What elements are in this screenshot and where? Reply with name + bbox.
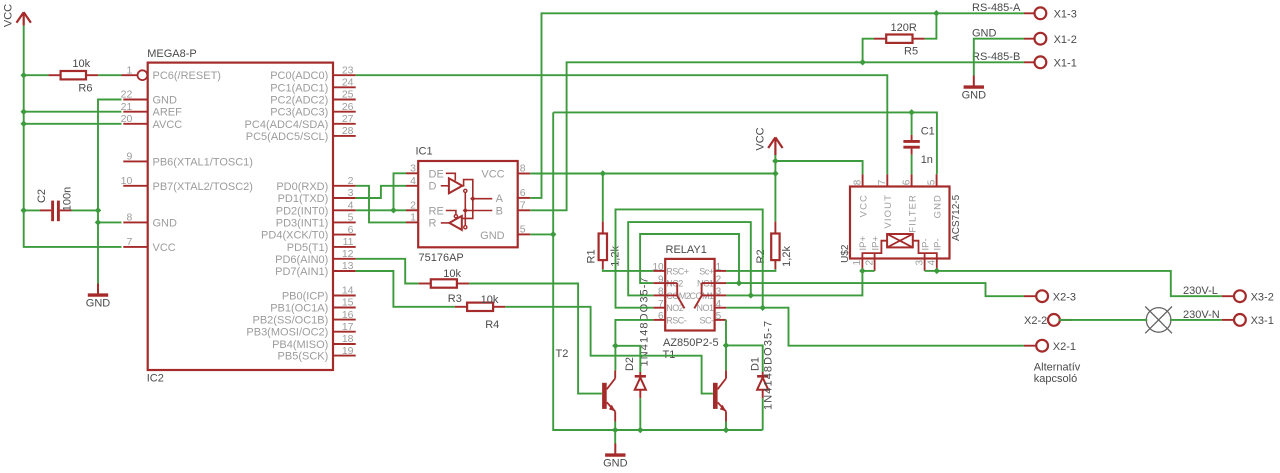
svg-text:7: 7	[126, 236, 132, 248]
ACS712 IP+ internal leads (pins 1,2)	[862, 241, 887, 271]
junction VCC/R2	[772, 170, 779, 177]
svg-text:10: 10	[652, 262, 664, 273]
IC U1 75176AP body (IC1)	[418, 161, 518, 247]
svg-text:PD2(INT0): PD2(INT0)	[276, 205, 329, 217]
connector pad X2-2	[1048, 314, 1060, 326]
IC2 pin 17 stub	[333, 331, 356, 333]
IC1 DE enable line	[446, 173, 456, 180]
junction ACS IP-	[934, 268, 941, 275]
wire net GND: D1 anode to rail corner	[762, 398, 764, 430]
svg-text:4: 4	[927, 260, 938, 266]
junction GND/C2	[95, 207, 102, 214]
svg-text:6: 6	[658, 311, 664, 322]
wire net GND: C2 right	[72, 209, 99, 211]
svg-text:IC1: IC1	[416, 146, 433, 158]
svg-text:D1: D1	[750, 357, 762, 371]
svg-text:9: 9	[658, 274, 664, 285]
svg-text:VIOUT: VIOUT	[883, 194, 894, 229]
wire net RS-485-A: IC1 A to X1-3	[530, 13, 1024, 198]
svg-text:4: 4	[410, 175, 416, 187]
RELAY1 contact pole 1	[702, 282, 715, 284]
wire net VCC: IC1 pin 8 to R2 top	[530, 173, 775, 175]
IC2 pin 8 stub	[123, 221, 147, 223]
svg-text:VCC: VCC	[481, 168, 504, 180]
IC2 pin 12 stub	[333, 258, 356, 260]
svg-text:PD6(AIN0): PD6(AIN0)	[275, 254, 328, 266]
svg-text:24: 24	[342, 77, 354, 89]
svg-text:IP-: IP-	[920, 238, 931, 250]
wire net INT0: branch to IC1 DE	[394, 173, 407, 210]
transistor T1 NPN	[713, 383, 718, 409]
ACS712 pin 8 stub	[862, 174, 864, 186]
svg-text:PB5(SCK): PB5(SCK)	[278, 351, 329, 363]
svg-text:20: 20	[121, 113, 133, 125]
IC2 pin 19 stub	[333, 355, 356, 357]
svg-text:19: 19	[342, 345, 354, 357]
capacitor C2 100n	[40, 209, 51, 211]
RELAY1 pin 5 stub	[715, 319, 727, 321]
capacitor C1 1n	[911, 135, 913, 140]
svg-text:Sc+: Sc+	[699, 266, 714, 276]
ACS712 IP- internal leads (pins 3,4)	[913, 241, 937, 271]
wire net SC-: relay pin 5 to T1 collector	[725, 320, 727, 346]
junction NO loop/NO1	[759, 304, 766, 311]
wire net RSC-: to T2 collector pin	[614, 346, 616, 371]
wire net VCC: to C2 left	[24, 209, 40, 211]
svg-text:PB3(MOSI/OC2): PB3(MOSI/OC2)	[246, 327, 328, 339]
svg-text:IP+: IP+	[858, 236, 869, 251]
wire net SC-: branch to D1 cathode	[726, 345, 763, 372]
svg-text:GND: GND	[480, 230, 505, 242]
wire net GND: to IC2 pin 8	[98, 221, 122, 223]
svg-text:D2: D2	[624, 357, 636, 371]
svg-text:5: 5	[716, 311, 722, 322]
wire net GND: T2 emitter	[614, 422, 616, 431]
IC2 pin 26 stub	[333, 111, 356, 113]
connector pad X1-1	[1035, 56, 1047, 68]
junction COM loop/COM1	[748, 292, 755, 299]
svg-text:1N4148DO35-7: 1N4148DO35-7	[763, 320, 775, 410]
wire net TXD: IC2 pin 3 to IC1 D	[356, 186, 406, 198]
power symbol VCC (left)	[23, 12, 25, 25]
svg-text:X2-2: X2-2	[1024, 315, 1047, 327]
svg-text:IP+: IP+	[870, 236, 881, 251]
svg-text:2: 2	[716, 274, 722, 285]
wire net COM: loop pin 8 to pin 3	[628, 222, 751, 295]
svg-text:28: 28	[342, 125, 354, 137]
svg-text:Alternatív: Alternatív	[1034, 361, 1081, 373]
svg-text:PD0(RXD): PD0(RXD)	[276, 181, 328, 193]
svg-text:PC4(ADC4/SDA): PC4(ADC4/SDA)	[245, 119, 329, 131]
svg-text:10: 10	[121, 175, 133, 187]
wire net NO: relay pin 4 to X2-1	[726, 308, 1024, 346]
wire net NC: relay pin 2 to X2-3	[726, 283, 1024, 296]
connector pad X3-1	[1234, 314, 1246, 326]
wire net VCC: to ACS712 pin 8	[775, 161, 862, 174]
svg-text:PB7(XTAL2/TOSC2): PB7(XTAL2/TOSC2)	[153, 181, 253, 193]
junction GND/C1	[908, 109, 915, 116]
RELAY1 pin 8 stub	[653, 294, 665, 296]
wire net FILTER: C1 to ACS712 pin 6	[911, 155, 913, 174]
svg-text:R2: R2	[755, 249, 767, 263]
connector pad X1-2	[1035, 33, 1047, 45]
IC1 driver output to A/B crossover	[462, 180, 473, 219]
junction RS-485-B/R5	[859, 59, 866, 66]
svg-text:100n: 100n	[62, 187, 74, 211]
diode D2 1N4148	[639, 372, 641, 376]
svg-text:PC2(ADC2): PC2(ADC2)	[270, 95, 328, 107]
svg-text:R6: R6	[78, 82, 92, 94]
svg-text:X2-3: X2-3	[1053, 291, 1076, 303]
svg-text:MEGA8-P: MEGA8-P	[147, 48, 197, 60]
junction NC loop/NC1	[736, 280, 743, 287]
svg-text:GND: GND	[153, 217, 178, 229]
resistor R1 1,2k	[602, 221, 604, 233]
wire net NO: loop pin 7 to pin 4	[616, 209, 763, 307]
IC1 driver buffer triangle	[449, 178, 462, 193]
IC1 pin 3 stub	[406, 172, 418, 174]
diode D1 1N4148	[762, 372, 764, 376]
svg-text:14: 14	[342, 285, 354, 297]
svg-text:RSC+: RSC+	[666, 266, 689, 276]
IC1 RE enable line	[446, 211, 456, 215]
ground symbol GND (bottom, emitters)	[614, 444, 616, 456]
svg-text:C1: C1	[921, 125, 935, 137]
resistor R3 10k	[419, 283, 431, 285]
svg-text:2: 2	[864, 260, 875, 266]
ACS712 internal sensor crossed box	[887, 234, 913, 247]
IC1 pin 1 stub	[406, 221, 418, 223]
svg-text:7: 7	[520, 200, 526, 212]
svg-text:22: 22	[121, 89, 133, 101]
IC1 D input line	[441, 185, 449, 187]
svg-text:PD7(AIN1): PD7(AIN1)	[275, 266, 328, 278]
IC2 pin 22 stub	[123, 99, 147, 101]
RELAY1 pin 6 stub	[653, 319, 665, 321]
svg-text:VCC: VCC	[153, 242, 176, 254]
svg-text:GND: GND	[962, 90, 987, 102]
svg-text:3: 3	[410, 163, 416, 175]
svg-text:9: 9	[126, 151, 132, 163]
wire net GND: IC1 pin 5	[530, 233, 553, 235]
connector pin X3-1 stub	[1222, 319, 1235, 321]
junction GND rail/D2	[637, 427, 644, 434]
svg-text:IC2: IC2	[147, 373, 164, 385]
junction RSC-/T2/D2	[612, 343, 619, 350]
svg-text:8: 8	[126, 212, 132, 224]
IC1 pin 7 stub	[518, 209, 531, 211]
ACS712 pin 7 stub	[886, 174, 888, 186]
svg-text:PC6(/RESET): PC6(/RESET)	[153, 70, 221, 82]
svg-text:VCC: VCC	[755, 127, 767, 150]
svg-text:RSC-: RSC-	[666, 315, 687, 325]
svg-text:4: 4	[716, 299, 722, 310]
junction VCC/AVCC	[20, 121, 27, 128]
svg-text:7: 7	[658, 299, 664, 310]
svg-text:X1-1: X1-1	[1054, 58, 1077, 70]
svg-text:B: B	[496, 206, 503, 218]
svg-text:RELAY1: RELAY1	[666, 244, 707, 256]
svg-text:5: 5	[926, 179, 937, 185]
svg-text:16: 16	[342, 309, 354, 321]
svg-text:VCC: VCC	[3, 4, 15, 27]
IC2 pin 2 stub	[333, 185, 356, 187]
wire net T2 base: R3 to T2	[469, 284, 602, 394]
svg-text:NO2: NO2	[666, 303, 684, 313]
wire net VIOUT: IC2 pin 23 to ACS712 pin 7	[356, 75, 888, 174]
svg-text:PC1(ADC1): PC1(ADC1)	[270, 82, 328, 94]
IC2 pin 13 stub	[333, 270, 356, 272]
svg-text:4: 4	[348, 200, 354, 212]
wire net 230V-N: X2-2 to lamp	[1059, 319, 1147, 321]
lamp (230V indicator)	[1146, 308, 1171, 333]
resistor R2 1,2k	[774, 221, 776, 233]
svg-text:8: 8	[658, 287, 664, 298]
wire net N$RESET: R6 to IC2 pin 1	[98, 74, 121, 76]
IC2 pin 18 stub	[333, 343, 356, 345]
wire net RSC-: relay pin 6 to T2 collector	[615, 320, 653, 346]
svg-text:AZ850P2-5: AZ850P2-5	[663, 337, 719, 349]
transistor T2 NPN	[602, 383, 607, 409]
svg-text:17: 17	[342, 321, 354, 333]
junction SC-/T1/D1	[723, 342, 730, 349]
svg-text:1: 1	[852, 260, 863, 266]
svg-text:13: 13	[342, 260, 354, 272]
svg-text:X3-2: X3-2	[1251, 291, 1274, 303]
svg-text:1: 1	[716, 262, 722, 273]
resistor R5 120R	[874, 38, 886, 40]
IC2 pin 10 stub	[123, 185, 147, 187]
IC2 pin 14 stub	[333, 295, 356, 297]
IC2 pin 6 stub	[333, 234, 356, 236]
wire net VCC: arrow stem down to R2	[774, 155, 776, 221]
wire net GND: X1-2 to ground symbol	[974, 39, 1024, 76]
svg-text:5: 5	[348, 212, 354, 224]
svg-text:R4: R4	[485, 319, 499, 331]
wire net VCC: to R6	[24, 74, 49, 76]
connector pin X2-1 stub	[1024, 345, 1037, 347]
junction VCC/AREF	[20, 108, 27, 115]
wire net SC-: to T1 collector pin	[725, 345, 727, 370]
IC2 pin 23 stub	[333, 74, 356, 76]
wire net SC+: relay pin 1 to R2 bottom	[726, 269, 775, 271]
connector pin X1-1 stub	[1024, 61, 1035, 63]
svg-text:7: 7	[877, 179, 888, 185]
svg-text:X2-1: X2-1	[1053, 341, 1076, 353]
svg-text:ACS712-5: ACS712-5	[951, 194, 962, 241]
wire net GND: T1 emitter	[725, 422, 727, 431]
IC2 pin 24 stub	[333, 86, 356, 88]
relay RELAY1 body	[665, 259, 714, 331]
junction ACS IP+	[859, 268, 866, 275]
connector pad X2-1	[1036, 340, 1048, 352]
svg-text:PD4(XCK/T0): PD4(XCK/T0)	[261, 230, 328, 242]
IC2 pin 7 stub	[123, 246, 147, 248]
IC2 pin 16 stub	[333, 319, 356, 321]
svg-text:6: 6	[901, 179, 912, 185]
RELAY1 pin 1 stub	[715, 270, 727, 272]
wire net T1 base: R4 to T1	[505, 307, 713, 394]
wire net GND: IC2 pin 22 down to ground	[98, 100, 122, 284]
svg-text:2: 2	[348, 175, 354, 187]
wire net PD7: IC2 pin 13 to R4	[356, 271, 455, 307]
svg-text:15: 15	[342, 297, 354, 309]
IC2 pin 28 stub	[333, 135, 356, 137]
resistor R6 10k	[48, 74, 60, 76]
IC1 receiver buffer triangle	[449, 216, 462, 230]
svg-text:PB0(ICP): PB0(ICP)	[282, 291, 328, 303]
junction GND rail/T1 emitter	[723, 427, 730, 434]
IC2 pin 11 stub	[333, 246, 356, 248]
wire net RS-485-B: R5 to B line	[863, 39, 874, 63]
svg-text:1: 1	[410, 212, 416, 224]
svg-text:A: A	[496, 193, 504, 205]
svg-text:120R: 120R	[891, 22, 917, 34]
svg-text:6: 6	[520, 187, 526, 199]
wire net VCC: to AVCC	[24, 123, 122, 125]
svg-text:U$2: U$2	[840, 244, 851, 263]
svg-text:DE: DE	[429, 168, 444, 180]
svg-text:3: 3	[914, 260, 925, 266]
wire net GND: stub to ground symbol	[614, 430, 616, 444]
wire net GND: vertical and emitter rail	[553, 112, 763, 430]
IC1 R output line	[441, 222, 450, 224]
IC2 pin 5 stub	[333, 221, 356, 223]
IC2 pin 20 stub	[123, 123, 147, 125]
svg-text:PC3(ADC3): PC3(ADC3)	[270, 107, 328, 119]
connector pad X3-2	[1234, 290, 1246, 302]
svg-text:10k: 10k	[72, 58, 90, 70]
svg-text:GND: GND	[153, 95, 178, 107]
RELAY1 contact pole 2	[665, 282, 677, 284]
svg-text:NO1: NO1	[696, 303, 714, 313]
wire net RS-485-B: IC1 B to X1-1	[530, 62, 1024, 210]
svg-text:T2: T2	[556, 348, 569, 360]
connector pin X3-2 stub	[1222, 295, 1235, 297]
svg-text:PB6(XTAL1/TOSC1): PB6(XTAL1/TOSC1)	[153, 156, 253, 168]
ACS712 pin 6 stub	[911, 174, 913, 186]
connector pin X2-3 stub	[1024, 295, 1037, 297]
svg-text:6: 6	[348, 224, 354, 236]
svg-text:SC-: SC-	[700, 315, 715, 325]
svg-text:kapcsoló: kapcsoló	[1034, 373, 1077, 385]
wire net PD6: IC2 pin 12 to R3	[356, 259, 419, 284]
svg-text:23: 23	[342, 64, 354, 76]
IC U$2 ACS712-5 body	[850, 187, 950, 259]
junction VCC/R6	[20, 72, 27, 79]
svg-text:75176AP: 75176AP	[419, 252, 464, 264]
junction DE/RE	[390, 207, 397, 214]
IC2 pin 21 stub	[123, 111, 147, 113]
IC1 driver inverted output bubble and B line	[464, 189, 467, 192]
wire net VCC: to AREF	[24, 111, 122, 113]
junction GND rail/T2 emitter	[612, 427, 619, 434]
svg-text:18: 18	[342, 333, 354, 345]
svg-text:C2: C2	[36, 189, 48, 203]
IC1 pin 4 stub	[406, 185, 418, 187]
svg-text:PD1(TXD): PD1(TXD)	[278, 193, 329, 205]
svg-text:GND: GND	[603, 458, 628, 470]
svg-text:R1: R1	[586, 249, 598, 263]
svg-text:RE: RE	[429, 205, 444, 217]
wire net VCC: left rail down to IC2 pin 7	[24, 26, 122, 247]
svg-text:3: 3	[348, 187, 354, 199]
svg-text:IP-: IP-	[933, 238, 944, 250]
ground symbol GND (left, C2/IC2)	[97, 284, 99, 296]
junction GND/IC2 pin 8	[95, 219, 102, 226]
svg-text:8: 8	[852, 179, 863, 185]
junction RS-485-A/R5	[933, 10, 940, 17]
svg-text:8: 8	[520, 163, 526, 175]
ACS712 pin 5 stub	[936, 174, 938, 186]
wire net COM: ACS712 pins 1-2 tie	[862, 270, 874, 272]
connector pad X1-3	[1035, 7, 1047, 19]
svg-text:27: 27	[342, 113, 354, 125]
wire net RS-485-A: branch to R5	[925, 13, 937, 38]
svg-text:GND: GND	[86, 298, 111, 310]
IC U2 MEGA8-P body (IC2)	[148, 63, 333, 370]
connector pin X1-3 stub	[1024, 12, 1035, 14]
wire net 230V-L: ACS712 pins 3-4 tie	[925, 270, 937, 272]
IC1 pin 5 stub	[518, 233, 531, 235]
IC1 pin 6 stub	[518, 197, 531, 199]
IC2 pin 4 stub	[333, 209, 356, 211]
RELAY1 pin 9 stub	[653, 282, 665, 284]
junction GND/IC1 pin 5	[550, 231, 557, 238]
RELAY1 pin 10 stub	[653, 270, 665, 272]
IC2 pin 3 stub	[333, 197, 356, 199]
IC2 pin 15 stub	[333, 307, 356, 309]
IC2 pin 27 stub	[333, 123, 356, 125]
svg-text:R3: R3	[448, 293, 462, 305]
svg-text:AREF: AREF	[153, 107, 183, 119]
svg-text:21: 21	[121, 101, 133, 113]
svg-text:AVCC: AVCC	[153, 119, 183, 131]
wire net INT0: IC2 pin 4 to IC1 RE	[356, 209, 406, 211]
RELAY1 pin 2 stub	[715, 282, 727, 284]
svg-text:X1-2: X1-2	[1054, 34, 1077, 46]
connector pin X1-2 stub	[1024, 38, 1035, 40]
svg-text:PB4(MISO): PB4(MISO)	[272, 339, 328, 351]
wire net COM: relay pin 3 to ACS712 IP+	[726, 271, 862, 296]
RELAY1 pin 3 stub	[715, 294, 727, 296]
svg-text:2: 2	[410, 200, 416, 212]
junction VCC/C2	[20, 207, 27, 214]
IC1 RE bubble	[454, 215, 457, 218]
wire net 230V-L: ACS712 IP- to X3-2	[937, 271, 1222, 296]
resistor R4 10k	[455, 306, 467, 308]
svg-text:PD3(INT1): PD3(INT1)	[276, 217, 329, 229]
svg-text:1: 1	[126, 64, 132, 76]
RELAY1 pin 7 stub	[653, 307, 665, 309]
IC2 pin 1 PC6(/RESET) with inversion circle	[122, 74, 138, 76]
svg-text:5: 5	[520, 224, 526, 236]
connector pad X2-3	[1036, 290, 1048, 302]
svg-text:PD5(T1): PD5(T1)	[287, 242, 329, 254]
svg-text:PC5(ADC5/SCL): PC5(ADC5/SCL)	[246, 131, 329, 143]
wire net RXD: IC2 pin 2 to IC1 R	[356, 186, 406, 223]
svg-text:D: D	[429, 181, 437, 193]
wire net RSC-: branch to D2 cathode	[615, 346, 640, 372]
RELAY1 pin 4 stub	[715, 307, 727, 309]
svg-text:PB2(SS/OC1B): PB2(SS/OC1B)	[252, 315, 328, 327]
svg-text:1n: 1n	[921, 154, 933, 166]
svg-text:3: 3	[716, 287, 722, 298]
svg-text:PC0(ADC0): PC0(ADC0)	[270, 70, 328, 82]
svg-text:11: 11	[343, 236, 354, 248]
IC1 pin 8 stub	[518, 173, 531, 175]
junction VCC/R1	[600, 170, 607, 177]
